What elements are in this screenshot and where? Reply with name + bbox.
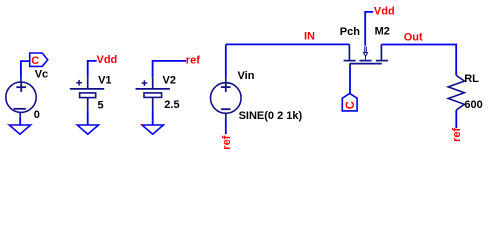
transistor M2 (PMOS) bbox=[344, 44, 389, 67]
svg-text:C: C bbox=[345, 101, 358, 110]
svg-text:Pch: Pch bbox=[340, 26, 360, 38]
voltage source V1 (battery) bbox=[70, 77, 104, 109]
svg-text:ref: ref bbox=[451, 128, 463, 142]
wire V1 to ground bbox=[87, 109, 89, 125]
svg-text:Vdd: Vdd bbox=[97, 54, 118, 66]
svg-text:V1: V1 bbox=[98, 75, 111, 87]
svg-text:Vdd: Vdd bbox=[374, 6, 395, 18]
wire Vdd to M2 bulk bbox=[365, 12, 373, 46]
svg-text:600: 600 bbox=[464, 99, 482, 111]
svg-text:Vc: Vc bbox=[35, 69, 48, 81]
svg-text:M2: M2 bbox=[375, 25, 390, 37]
voltage source V2 (battery) bbox=[136, 77, 170, 109]
svg-text:Vin: Vin bbox=[238, 70, 255, 82]
voltage source Vin bbox=[211, 78, 242, 118]
ground (V1) bbox=[77, 125, 98, 134]
wire Vin to IN net bbox=[225, 44, 227, 78]
wire RL to ref bbox=[455, 110, 457, 128]
wire V2 to ref flag bbox=[153, 61, 187, 77]
ground (Vc) bbox=[9, 125, 30, 134]
wire V1 to Vdd flag bbox=[88, 61, 97, 77]
svg-text:V2: V2 bbox=[163, 75, 176, 87]
voltage source Vc bbox=[6, 79, 36, 117]
ground (V2) bbox=[142, 125, 163, 134]
svg-text:0: 0 bbox=[34, 109, 40, 121]
svg-text:IN: IN bbox=[304, 30, 315, 42]
svg-text:ref: ref bbox=[221, 135, 233, 149]
svg-text:RL: RL bbox=[464, 73, 479, 85]
port flag C (net C, right-pointing) bbox=[30, 53, 48, 66]
wire Out bbox=[381, 45, 456, 76]
resistor RL bbox=[448, 75, 464, 110]
svg-text:C: C bbox=[31, 55, 39, 67]
wire Vc to ground bbox=[19, 117, 21, 125]
wire gate to port C bbox=[349, 67, 351, 93]
M2 bulk arrow bbox=[363, 46, 367, 60]
svg-text:5: 5 bbox=[98, 99, 104, 111]
wire IN bbox=[226, 43, 350, 45]
port flag C (net C, up-pointing) bbox=[342, 93, 357, 111]
svg-text:Out: Out bbox=[404, 32, 423, 44]
wire Vin bottom to ref bbox=[225, 118, 227, 134]
wire port C to Vc bbox=[21, 61, 30, 78]
svg-text:2.5: 2.5 bbox=[164, 99, 179, 111]
wire V2 to ground bbox=[152, 109, 154, 125]
svg-text:SINE(0 2 1k): SINE(0 2 1k) bbox=[239, 110, 303, 122]
svg-text:ref: ref bbox=[186, 55, 200, 67]
